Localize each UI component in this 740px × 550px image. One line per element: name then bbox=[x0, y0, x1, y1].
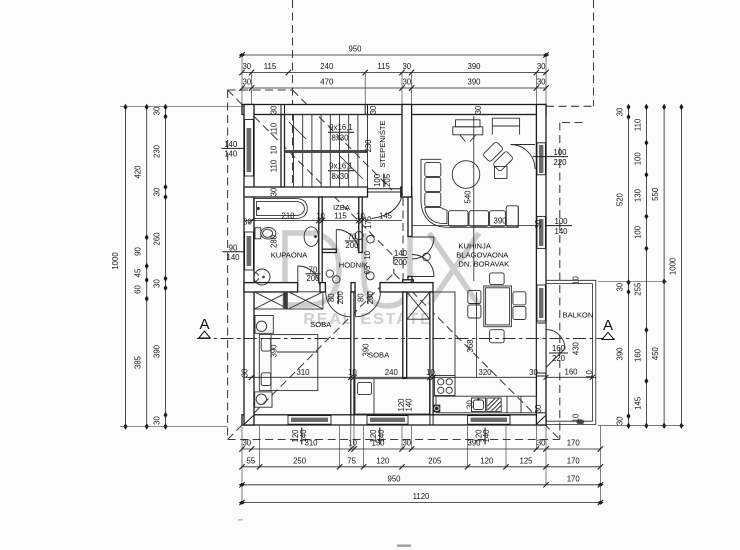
svg-text:BALKON: BALKON bbox=[563, 311, 594, 320]
svg-text:205: 205 bbox=[428, 456, 442, 465]
svg-text:200: 200 bbox=[345, 241, 359, 250]
svg-text:120: 120 bbox=[376, 456, 390, 465]
svg-text:140: 140 bbox=[377, 429, 386, 443]
staircase outline bbox=[285, 115, 368, 188]
svg-text:110: 110 bbox=[633, 118, 642, 131]
svg-text:30: 30 bbox=[242, 62, 251, 71]
svg-text:30: 30 bbox=[537, 78, 546, 87]
svg-text:430: 430 bbox=[572, 341, 581, 355]
svg-text:140: 140 bbox=[405, 398, 414, 412]
side table bbox=[495, 167, 508, 179]
soba2 wardrobe niche bbox=[407, 292, 430, 319]
eave outline right bbox=[559, 123, 561, 440]
roof ridge bbox=[393, 256, 395, 273]
svg-text:450: 450 bbox=[651, 346, 660, 360]
svg-text:200: 200 bbox=[306, 274, 320, 283]
svg-text:220: 220 bbox=[553, 158, 567, 167]
svg-text:255: 255 bbox=[633, 282, 642, 296]
kitchen sink bbox=[472, 398, 486, 412]
balcony drain blob bbox=[576, 419, 584, 424]
dashed outline upper gable right bbox=[593, 0, 595, 106]
svg-text:250: 250 bbox=[293, 456, 307, 465]
wall joint lines bbox=[244, 105, 546, 426]
dashed outline upper gable horizontal bbox=[546, 105, 594, 107]
wall middle stair/living vertical bbox=[402, 105, 412, 198]
wall exterior bottom bbox=[242, 415, 546, 425]
svg-text:KUHINJA: KUHINJA bbox=[458, 241, 491, 250]
svg-text:320: 320 bbox=[478, 368, 492, 377]
svg-text:140: 140 bbox=[299, 429, 308, 443]
soba1 desk lower bbox=[255, 392, 272, 407]
svg-text:100: 100 bbox=[633, 225, 642, 239]
svg-text:420: 420 bbox=[134, 165, 143, 179]
svg-text:145: 145 bbox=[379, 211, 393, 220]
dining chairs bbox=[490, 273, 505, 285]
svg-text:10: 10 bbox=[572, 276, 581, 285]
armchair 1 bbox=[483, 141, 504, 162]
stair mid landing bbox=[285, 150, 368, 153]
stair break marks bbox=[289, 122, 363, 179]
door kupaona bbox=[297, 266, 299, 288]
svg-text:260: 260 bbox=[152, 232, 161, 246]
wall exterior top bbox=[242, 105, 546, 115]
svg-text:8x30: 8x30 bbox=[332, 134, 350, 143]
svg-text:280: 280 bbox=[270, 234, 279, 248]
svg-text:310: 310 bbox=[296, 368, 310, 377]
round table bbox=[452, 161, 480, 189]
balcony slab inner bbox=[546, 284, 592, 422]
interior dim line kupaona row 30/210/10/115/10/145 bbox=[244, 220, 402, 222]
svg-text:520: 520 bbox=[616, 192, 625, 206]
window left 140/140 bbox=[245, 120, 254, 177]
top chain 950 bbox=[242, 54, 546, 56]
svg-text:8x30: 8x30 bbox=[332, 172, 350, 181]
svg-text:30: 30 bbox=[369, 105, 378, 114]
section triangle right bbox=[602, 332, 614, 339]
wall W3 segment b bbox=[320, 283, 325, 292]
svg-text:390: 390 bbox=[152, 344, 161, 358]
svg-text:30: 30 bbox=[402, 62, 411, 71]
window right kitchen bbox=[537, 285, 545, 321]
door-window arc living top right bbox=[511, 145, 536, 170]
svg-text:110: 110 bbox=[270, 122, 279, 135]
svg-text:9x16,1: 9x16,1 bbox=[329, 162, 352, 171]
svg-text:120: 120 bbox=[480, 456, 494, 465]
svg-text:10: 10 bbox=[316, 211, 325, 220]
stair treads upper flight bbox=[294, 115, 358, 151]
kitchen hatched unit bbox=[487, 398, 501, 412]
right chain 550/450 bbox=[663, 107, 665, 426]
roof hip bottom-left bbox=[228, 273, 394, 439]
svg-text:115: 115 bbox=[264, 62, 277, 71]
svg-text:390: 390 bbox=[493, 216, 507, 225]
kitchen counter left bbox=[433, 292, 455, 396]
door izba bbox=[335, 230, 337, 252]
svg-text:30: 30 bbox=[402, 439, 411, 448]
wall exterior right bbox=[536, 105, 546, 426]
svg-text:30: 30 bbox=[242, 439, 251, 448]
corner hatch bottom-right bbox=[537, 416, 546, 425]
svg-text:390: 390 bbox=[467, 78, 481, 87]
top chain 30/115/240/115/30/390/30 bbox=[242, 72, 546, 74]
wall izba right bbox=[359, 197, 362, 253]
window right 100/140 bbox=[537, 216, 545, 248]
svg-text:140: 140 bbox=[224, 140, 238, 149]
left chain 30/230/30/260/30/390/30 bbox=[165, 107, 167, 427]
svg-text:200: 200 bbox=[366, 291, 375, 305]
svg-text:30: 30 bbox=[537, 439, 546, 448]
wall exterior left bbox=[244, 105, 254, 426]
svg-text:140: 140 bbox=[554, 227, 568, 236]
left extension lines bbox=[120, 107, 244, 427]
hodnik lamp circles bbox=[367, 236, 375, 244]
svg-text:30: 30 bbox=[152, 416, 161, 425]
balcony door opening bbox=[537, 323, 545, 373]
dashed short vertical hodnik bbox=[402, 198, 404, 291]
svg-text:1000: 1000 bbox=[668, 257, 677, 275]
bottom chain 30/310/10/150/30/390/30 +170 bbox=[242, 448, 600, 450]
svg-text:110: 110 bbox=[270, 159, 279, 172]
tv cabinet bbox=[456, 120, 481, 127]
bathtub bbox=[254, 199, 308, 219]
svg-text:390: 390 bbox=[269, 344, 278, 358]
wall W3 segment a bbox=[244, 283, 298, 292]
sofa L-shape bbox=[421, 159, 518, 227]
svg-text:540: 540 bbox=[464, 190, 473, 204]
toilet bbox=[255, 228, 261, 239]
svg-text:240: 240 bbox=[320, 62, 334, 71]
wall stair left thin bbox=[281, 115, 285, 188]
svg-text:45: 45 bbox=[134, 268, 143, 277]
dining table bbox=[484, 286, 512, 327]
svg-text:30: 30 bbox=[616, 107, 625, 116]
svg-text:30: 30 bbox=[466, 400, 475, 409]
cooktop bbox=[435, 376, 456, 396]
svg-text:30: 30 bbox=[242, 78, 251, 87]
interior dim kitchen 368 bbox=[476, 292, 478, 377]
svg-text:115: 115 bbox=[377, 62, 390, 71]
svg-text:170: 170 bbox=[567, 439, 581, 448]
svg-text:240: 240 bbox=[385, 368, 399, 377]
svg-text:368: 368 bbox=[466, 339, 475, 352]
svg-text:30: 30 bbox=[402, 78, 411, 87]
wall hodnik/living thin lower bbox=[408, 277, 412, 284]
svg-text:BLAGOVAONA: BLAGOVAONA bbox=[456, 250, 509, 259]
wall kupaona right bbox=[319, 197, 322, 283]
section line A-A bbox=[197, 338, 615, 340]
svg-text:30: 30 bbox=[534, 219, 543, 228]
balcony dim line 160/10 bbox=[546, 376, 596, 378]
door stair hall (hodnik top) bbox=[372, 194, 403, 219]
bottom chain 1120 bbox=[242, 502, 600, 504]
svg-text:9x16,1: 9x16,1 bbox=[329, 123, 352, 132]
svg-text:205: 205 bbox=[383, 173, 392, 187]
window bottom soba1 120/140 bbox=[288, 416, 331, 425]
svg-text:100: 100 bbox=[373, 173, 382, 187]
svg-text:100: 100 bbox=[554, 217, 568, 226]
bottom extension lines bbox=[242, 426, 600, 503]
svg-text:30: 30 bbox=[270, 105, 279, 114]
svg-text:10: 10 bbox=[348, 368, 357, 377]
door soba2 bbox=[355, 292, 380, 317]
kitchen corner dark unit bbox=[433, 405, 440, 413]
svg-text:30: 30 bbox=[616, 282, 625, 291]
svg-text:30: 30 bbox=[241, 368, 250, 377]
svg-text:390: 390 bbox=[467, 62, 481, 71]
eave outline top (short, left part) bbox=[228, 89, 293, 91]
svg-text:140: 140 bbox=[224, 150, 238, 159]
svg-text:130: 130 bbox=[633, 188, 642, 202]
top extension lines bbox=[242, 55, 546, 105]
svg-text:10: 10 bbox=[348, 439, 357, 448]
armchair 2 bbox=[493, 151, 514, 172]
svg-text:175: 175 bbox=[364, 215, 373, 229]
svg-text:115: 115 bbox=[334, 211, 347, 220]
dashed balcony-above corner bbox=[562, 122, 585, 124]
interior dim living width 390 bbox=[412, 225, 537, 227]
svg-text:170: 170 bbox=[567, 456, 581, 465]
soba2 bed bbox=[355, 379, 430, 414]
svg-text:80: 80 bbox=[327, 293, 336, 302]
svg-text:10: 10 bbox=[270, 145, 279, 154]
door threshold lines stair hall bbox=[368, 188, 401, 190]
window right 100/220 door-window bbox=[537, 143, 545, 175]
svg-text:10: 10 bbox=[585, 370, 594, 379]
svg-text:30: 30 bbox=[270, 187, 279, 196]
wall W3 segment c bbox=[351, 283, 355, 292]
svg-text:160: 160 bbox=[564, 368, 578, 377]
svg-text:10: 10 bbox=[363, 250, 372, 259]
svg-text:90: 90 bbox=[134, 247, 143, 256]
svg-text:140: 140 bbox=[482, 429, 491, 443]
double door living room leaf 1 bbox=[412, 236, 434, 238]
washing machine bbox=[254, 269, 270, 285]
door soba1 bbox=[326, 292, 351, 317]
soba1 bed bbox=[259, 335, 318, 391]
svg-text:950: 950 bbox=[348, 45, 362, 54]
svg-text:470: 470 bbox=[320, 78, 334, 87]
svg-text:30: 30 bbox=[616, 416, 625, 425]
wall partition soba1/soba2 bbox=[351, 292, 354, 415]
corner hatch bottom-left bbox=[245, 416, 254, 425]
svg-text:950: 950 bbox=[387, 474, 401, 483]
svg-text:30: 30 bbox=[537, 62, 546, 71]
interior dim living height 540 bbox=[473, 116, 475, 281]
window left 90/140 bbox=[245, 232, 254, 270]
wall stair hall bottom W2 right stub bbox=[401, 187, 412, 197]
window bottom soba2 120/140 bbox=[367, 416, 408, 425]
svg-text:1120: 1120 bbox=[413, 492, 430, 501]
scan artifact bottom bbox=[397, 545, 411, 547]
svg-text:10: 10 bbox=[572, 413, 581, 422]
stair treads lower flight bbox=[294, 153, 358, 187]
svg-text:90: 90 bbox=[229, 243, 238, 252]
left chain 420/90/45/60/385 bbox=[146, 107, 148, 427]
double door living room leaf 2 bbox=[412, 276, 434, 278]
svg-text:60: 60 bbox=[134, 285, 143, 294]
svg-text:230: 230 bbox=[152, 144, 161, 158]
svg-text:220: 220 bbox=[552, 354, 566, 363]
bottom chain 55/250/75/120/205/120/125 +170 bbox=[242, 466, 600, 468]
wall soba2 right / niche bbox=[403, 292, 407, 378]
svg-text:125: 125 bbox=[519, 456, 533, 465]
right extension lines bbox=[598, 282, 684, 426]
svg-text:200: 200 bbox=[336, 291, 345, 305]
svg-text:550: 550 bbox=[651, 187, 660, 201]
svg-text:210: 210 bbox=[281, 211, 295, 220]
balcony door arc bbox=[546, 330, 565, 349]
svg-text:SOBA: SOBA bbox=[310, 320, 332, 329]
svg-text:160: 160 bbox=[552, 344, 566, 353]
svg-text:75: 75 bbox=[347, 456, 356, 465]
svg-text:160: 160 bbox=[633, 348, 642, 362]
svg-text:170: 170 bbox=[567, 474, 581, 483]
svg-text:80: 80 bbox=[357, 293, 366, 302]
wall kitchen left partition bbox=[430, 292, 433, 415]
svg-text:100: 100 bbox=[553, 148, 567, 157]
svg-text:DN. BORAVAK: DN. BORAVAK bbox=[458, 259, 509, 268]
svg-text:30: 30 bbox=[152, 106, 161, 115]
watermark DUX bbox=[285, 233, 479, 306]
top chain 30/470/30/390/30 bbox=[242, 87, 546, 89]
svg-text:30: 30 bbox=[474, 105, 483, 114]
svg-text:145: 145 bbox=[633, 396, 642, 410]
svg-text:30: 30 bbox=[243, 218, 252, 227]
right chain 1000 bbox=[680, 107, 682, 426]
roof hip top-left bbox=[228, 90, 394, 256]
svg-text:30: 30 bbox=[152, 279, 161, 288]
svg-text:230: 230 bbox=[364, 139, 373, 153]
svg-text:A: A bbox=[603, 317, 613, 334]
left chain 1000 bbox=[125, 107, 127, 427]
window bottom kitchen 120/140 bbox=[468, 416, 510, 425]
svg-text:100: 100 bbox=[633, 152, 642, 166]
svg-text:10: 10 bbox=[426, 368, 435, 377]
balcony slab outer bbox=[546, 280, 596, 424]
dashed projection line upper floor wall bbox=[292, 0, 294, 190]
cabinet top right bbox=[492, 118, 519, 134]
svg-text:30: 30 bbox=[529, 368, 538, 377]
eave outline bottom bbox=[228, 439, 560, 441]
svg-text:30: 30 bbox=[152, 187, 161, 196]
eave outline left bbox=[227, 90, 229, 440]
right chain 110/100/130/100/255/160/145 bbox=[645, 107, 647, 426]
svg-text:SOBA: SOBA bbox=[368, 351, 390, 360]
svg-text:390: 390 bbox=[616, 347, 625, 361]
svg-text:140: 140 bbox=[226, 253, 240, 262]
soba1 desk upper bbox=[255, 316, 273, 334]
svg-text:200: 200 bbox=[394, 258, 408, 267]
kitchen counter bottom bbox=[436, 396, 536, 413]
wall W3 segment d bbox=[380, 283, 433, 292]
chimney block bbox=[403, 280, 414, 290]
svg-text:1000: 1000 bbox=[111, 252, 120, 270]
soba1 wardrobe bbox=[254, 292, 323, 309]
svg-text:55: 55 bbox=[246, 456, 255, 465]
bottom chain 950 +170 bbox=[242, 484, 600, 486]
svg-text:KUPAONA: KUPAONA bbox=[271, 251, 309, 260]
svg-text:STEPENIŠTE: STEPENIŠTE bbox=[378, 120, 387, 167]
svg-text:IZBA: IZBA bbox=[333, 203, 351, 212]
wall hodnik/living thin upper bbox=[408, 197, 412, 237]
washbasin bbox=[304, 227, 318, 247]
section triangle left bbox=[199, 331, 210, 338]
interior dim line soba row 310/10/240/10/320/30 bbox=[244, 376, 536, 378]
wall izba bottom stub bbox=[322, 249, 336, 252]
svg-text:HODNIK: HODNIK bbox=[339, 261, 369, 270]
dashed valley stair bbox=[293, 90, 393, 190]
svg-text:385: 385 bbox=[134, 355, 143, 369]
roof hip bottom-right bbox=[394, 273, 560, 439]
right chain 30/520/30/390/30 bbox=[628, 107, 630, 426]
svg-text:30: 30 bbox=[534, 404, 543, 413]
wall stair hall bottom W2 left segment bbox=[244, 187, 368, 197]
